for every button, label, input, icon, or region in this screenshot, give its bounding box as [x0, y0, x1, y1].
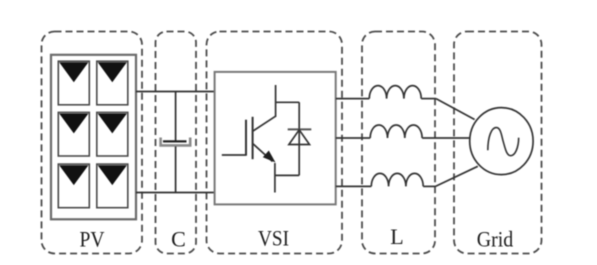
wire phase C from VSI: [336, 185, 372, 187]
C block dashed box: [156, 32, 197, 254]
svg-text:Grid: Grid: [477, 227, 514, 252]
PV cell row1 col1: [58, 61, 89, 105]
IGBT Q1 body bar: [252, 117, 254, 159]
wire phase B to grid: [422, 137, 470, 139]
wire DC bus bottom: [136, 192, 215, 194]
wire phase C diagonal to grid: [436, 166, 478, 186]
PV cell row1 col2: [97, 61, 128, 105]
PV cell row3 col2: [97, 164, 128, 208]
capacitor C bottom lead: [175, 147, 177, 193]
PV block dashed box: [42, 32, 143, 254]
grid sine symbol: [488, 128, 519, 156]
grid source circle: [470, 108, 533, 175]
IGBT Q1 emitter diagonal: [253, 144, 273, 162]
IGBT Q1 emitter vertical: [274, 163, 276, 193]
diode D1 vertical lead: [298, 102, 300, 175]
IGBT Q1 collector vertical: [275, 85, 277, 117]
diode D1 cathode bar: [288, 128, 312, 130]
wire DC bus top: [136, 91, 215, 93]
wire phase A to bend: [421, 98, 436, 100]
inductor L phase B: [370, 125, 422, 138]
IGBT Q1 collector diagonal: [253, 116, 276, 131]
svg-text:VSI: VSI: [258, 225, 289, 250]
Grid block dashed box: [454, 32, 542, 254]
wire phase B from VSI: [336, 137, 370, 139]
capacitor C top plate: [163, 140, 187, 142]
diode D1 triangle: [289, 130, 310, 145]
svg-text:L: L: [390, 224, 403, 249]
PV cell row2 col1: [58, 112, 89, 156]
inductor L phase C: [371, 173, 423, 186]
inductor L phase A: [369, 86, 421, 99]
IGBT Q1 gate bar: [245, 120, 247, 156]
capacitor C top lead: [175, 92, 177, 142]
PV cell row3 col1: [58, 164, 89, 208]
L block dashed box: [362, 32, 435, 254]
VSI inner solid box: [215, 72, 336, 205]
VSI block dashed box: [207, 32, 343, 254]
node: collector-to-diode top horizontal: [276, 101, 300, 103]
PV cell row2 col2: [97, 112, 128, 156]
IGBT Q1 gate lead: [222, 154, 246, 156]
capacitor C bottom cup plate: [161, 138, 191, 146]
svg-text:PV: PV: [80, 227, 105, 252]
PV array outer rectangle: [51, 55, 136, 220]
svg-text:C: C: [171, 226, 186, 251]
wire phase A from VSI: [336, 98, 370, 100]
node: emitter-to-diode bottom horizontal: [275, 174, 299, 176]
wire phase C to bend: [423, 185, 435, 187]
wire phase A diagonal to grid: [436, 99, 475, 120]
IGBT Q1 emitter arrow: [263, 151, 276, 163]
